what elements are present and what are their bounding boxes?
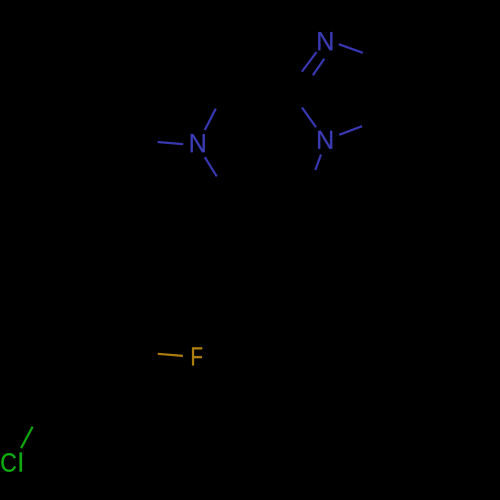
wire: bond stub N(imidazole top) to C5 right bbox=[339, 44, 363, 53]
wire: bond stub amine N to methyl (left) bbox=[158, 142, 184, 144]
node N imidazole bottom bbox=[318, 131, 332, 149]
wire: double bond N=C2 inner segment bbox=[313, 59, 324, 75]
wire: bond stub Cl to phenyl C (up-right) bbox=[21, 427, 32, 449]
node F fluorine bbox=[192, 347, 202, 365]
wire: bond stub N1(imidazole bottom) to C4 right bbox=[339, 126, 362, 135]
wire: bond stub N1(imidazole bottom) to C2 up-left bbox=[302, 108, 316, 128]
wire: double bond N=C2 outer segment bbox=[302, 52, 317, 72]
wire: bond stub amine N to CH2 up-right bbox=[205, 109, 216, 130]
node N imidazole top bbox=[318, 32, 332, 50]
wire: bond stub amine N to CH2 down-right bbox=[205, 157, 217, 176]
wire: bond stub F to phenyl C (left) bbox=[158, 354, 183, 356]
node Cl chlorine bbox=[1, 453, 16, 472]
node N amine bbox=[191, 134, 205, 152]
wire: bond stub N1(imidazole bottom) down to ring CH2 bbox=[315, 155, 321, 171]
